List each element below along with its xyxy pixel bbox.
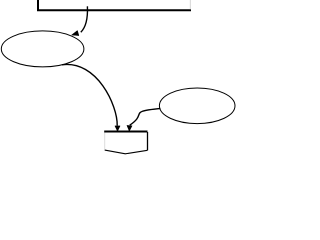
arrowhead into off-page shape (left) bbox=[115, 126, 120, 131]
rectangle (process box, clipped at top) bbox=[38, 0, 191, 10]
arrowhead into off-page shape (right) bbox=[127, 125, 132, 131]
wire: connector rectangle to left ellipse bbox=[81, 6, 88, 32]
arrowhead into left ellipse bbox=[72, 31, 79, 36]
wire: connector right ellipse to off-page shape bbox=[130, 108, 161, 125]
left ellipse bbox=[1, 31, 84, 67]
right ellipse bbox=[159, 88, 235, 124]
wire: connector left ellipse to off-page shape bbox=[62, 64, 117, 125]
off-page connector shape (bottom) bbox=[104, 132, 147, 154]
